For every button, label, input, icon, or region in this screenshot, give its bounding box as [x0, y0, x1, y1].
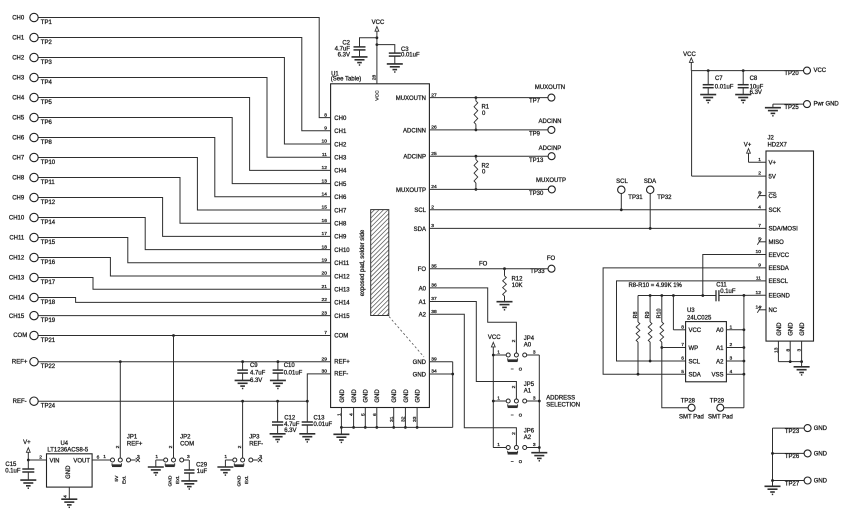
svg-text:TP18: TP18	[41, 300, 56, 306]
svg-text:7: 7	[758, 223, 761, 229]
svg-text:TP4: TP4	[41, 80, 53, 86]
svg-text:CH2: CH2	[12, 56, 25, 62]
svg-text:CH0: CH0	[12, 16, 25, 22]
svg-text:GND: GND	[66, 465, 72, 479]
svg-text:3: 3	[533, 395, 536, 401]
svg-text:JP3: JP3	[249, 434, 260, 440]
svg-text:CH1: CH1	[12, 36, 25, 42]
svg-text:TP12: TP12	[41, 200, 56, 206]
svg-text:CH10: CH10	[9, 216, 25, 222]
svg-text:VOUT: VOUT	[73, 458, 90, 464]
svg-text:SDA: SDA	[414, 227, 426, 233]
svg-text:CH7: CH7	[334, 208, 347, 214]
svg-text:REF-: REF-	[249, 442, 263, 448]
svg-text:CH7: CH7	[12, 156, 25, 162]
svg-text:TP7: TP7	[529, 99, 541, 105]
svg-text:Pwr GND: Pwr GND	[813, 102, 839, 108]
svg-text:1: 1	[155, 454, 158, 460]
svg-text:R2: R2	[481, 163, 489, 169]
svg-text:Ext.: Ext.	[122, 476, 128, 484]
svg-text:1: 1	[497, 349, 500, 355]
svg-text:TP11: TP11	[41, 180, 56, 186]
svg-text:TP21: TP21	[41, 338, 56, 344]
svg-text:J2: J2	[767, 135, 774, 141]
svg-text:REF+: REF+	[127, 442, 143, 448]
svg-text:2: 2	[758, 171, 761, 177]
svg-text:12: 12	[322, 165, 328, 171]
svg-text:4.7uF: 4.7uF	[284, 422, 300, 428]
svg-text:4: 4	[729, 369, 732, 375]
svg-text:24LC025: 24LC025	[687, 315, 712, 321]
svg-text:TP20: TP20	[784, 71, 799, 77]
svg-text:U4: U4	[60, 441, 68, 447]
svg-text:C15: C15	[5, 462, 17, 468]
svg-text:TP30: TP30	[529, 191, 544, 197]
svg-text:28: 28	[371, 74, 377, 80]
svg-text:CH13: CH13	[334, 287, 350, 293]
svg-text:GND: GND	[814, 451, 828, 457]
svg-text:3: 3	[729, 356, 732, 362]
svg-text:21: 21	[322, 284, 328, 290]
svg-text:2: 2	[511, 385, 517, 388]
svg-text:CH8: CH8	[12, 176, 25, 182]
svg-text:0.1uF: 0.1uF	[5, 469, 21, 475]
svg-text:exposed pad, solder side: exposed pad, solder side	[360, 229, 366, 296]
svg-text:1: 1	[497, 395, 500, 401]
svg-text:CH11: CH11	[334, 261, 350, 267]
svg-text:TP5: TP5	[41, 100, 53, 106]
svg-text:A1: A1	[716, 346, 724, 352]
svg-text:CH2: CH2	[334, 142, 347, 148]
svg-text:3: 3	[533, 442, 536, 448]
svg-text:GND: GND	[800, 322, 806, 336]
svg-text:GND: GND	[413, 360, 427, 366]
svg-text:A2: A2	[524, 435, 532, 441]
svg-text:Ext.: Ext.	[244, 476, 250, 484]
svg-text:MUXOUTP: MUXOUTP	[536, 178, 566, 184]
svg-text:CH1: CH1	[334, 129, 347, 135]
svg-text:ADCINP: ADCINP	[539, 146, 562, 152]
svg-text:EESCL: EESCL	[768, 279, 788, 285]
svg-text:HD2X7: HD2X7	[767, 143, 787, 149]
svg-text:13: 13	[773, 347, 779, 353]
svg-text:A0: A0	[419, 286, 427, 292]
svg-text:ADCINP: ADCINP	[403, 155, 426, 161]
svg-text:GND: GND	[404, 389, 410, 403]
svg-text:GND: GND	[352, 389, 358, 403]
svg-text:R1: R1	[481, 105, 489, 111]
svg-text:CH13: CH13	[9, 276, 25, 282]
svg-text:CH5: CH5	[334, 182, 347, 188]
svg-text:VCC: VCC	[813, 68, 826, 74]
svg-text:SCL: SCL	[414, 208, 426, 214]
svg-text:TP13: TP13	[529, 158, 544, 164]
svg-text:JP5: JP5	[524, 382, 535, 388]
svg-text:FO: FO	[479, 262, 488, 268]
svg-text:A0: A0	[524, 342, 532, 348]
svg-text:ADCINN: ADCINN	[539, 119, 562, 125]
svg-text:CH12: CH12	[334, 274, 350, 280]
svg-text:FO: FO	[418, 267, 427, 273]
svg-text:32: 32	[400, 416, 406, 422]
svg-text:0.1uF: 0.1uF	[720, 289, 736, 295]
svg-text:31: 31	[389, 416, 395, 422]
svg-text:CH9: CH9	[12, 196, 25, 202]
svg-text:REF-: REF-	[13, 399, 27, 405]
svg-text:TP15: TP15	[41, 240, 56, 246]
svg-text:CS: CS	[768, 194, 776, 200]
svg-text:CH6: CH6	[334, 195, 347, 201]
svg-text:6.3V: 6.3V	[250, 378, 262, 384]
svg-text:16: 16	[322, 218, 328, 224]
svg-text:8: 8	[681, 324, 684, 330]
svg-text:GND: GND	[236, 475, 242, 486]
svg-text:TP29: TP29	[710, 398, 725, 404]
svg-text:R10: R10	[657, 309, 663, 319]
svg-text:Ext.: Ext.	[175, 476, 181, 484]
svg-text:23: 23	[322, 310, 328, 316]
svg-text:GND: GND	[777, 322, 783, 336]
svg-text:ADDRESS: ADDRESS	[546, 395, 575, 401]
svg-text:5V: 5V	[768, 174, 775, 180]
svg-text:TP14: TP14	[41, 220, 56, 226]
svg-text:JP4: JP4	[524, 336, 535, 342]
svg-text:CH5: CH5	[12, 116, 25, 122]
svg-text:GND: GND	[167, 475, 173, 486]
svg-text:GND: GND	[340, 389, 346, 403]
svg-text:R9: R9	[645, 312, 651, 319]
svg-text:GND: GND	[814, 479, 828, 485]
svg-text:MISO: MISO	[768, 240, 784, 246]
svg-text:3: 3	[187, 454, 190, 460]
svg-text:6: 6	[681, 356, 684, 362]
svg-text:7: 7	[681, 342, 684, 348]
svg-text:8: 8	[324, 112, 327, 118]
svg-text:19: 19	[322, 257, 328, 263]
svg-text:VCC: VCC	[488, 335, 501, 341]
svg-text:GND: GND	[413, 372, 427, 378]
svg-text:4.7uF: 4.7uF	[250, 370, 266, 376]
svg-text:1: 1	[103, 454, 106, 460]
svg-text:EEGND: EEGND	[768, 293, 790, 299]
svg-text:7: 7	[324, 330, 327, 336]
svg-text:VCC: VCC	[372, 20, 385, 26]
svg-text:EESDA: EESDA	[768, 266, 788, 272]
svg-text:TP32: TP32	[657, 195, 672, 201]
svg-text:TP17: TP17	[41, 280, 56, 286]
svg-text:1: 1	[224, 454, 227, 460]
svg-text:GND: GND	[392, 389, 398, 403]
svg-text:TP31: TP31	[628, 195, 643, 201]
svg-text:A0: A0	[716, 328, 724, 334]
svg-text:REF+: REF+	[12, 359, 28, 365]
svg-text:JP1: JP1	[127, 434, 138, 440]
svg-text:TP2: TP2	[41, 40, 53, 46]
svg-text:V+: V+	[744, 142, 752, 148]
svg-text:SDA/MOSI: SDA/MOSI	[768, 227, 798, 233]
svg-text:JP6: JP6	[524, 429, 535, 435]
svg-text:CH4: CH4	[334, 169, 347, 175]
svg-text:SCL: SCL	[688, 359, 700, 365]
svg-text:C8: C8	[750, 76, 758, 82]
svg-text:2: 2	[511, 339, 517, 342]
svg-text:JP2: JP2	[180, 434, 191, 440]
svg-text:4: 4	[349, 413, 355, 416]
svg-text:2: 2	[511, 432, 517, 435]
svg-text:CH6: CH6	[12, 136, 25, 142]
svg-text:1: 1	[729, 324, 732, 330]
svg-text:COM: COM	[13, 333, 27, 339]
svg-text:29: 29	[322, 356, 328, 362]
svg-text:6.3V: 6.3V	[284, 428, 296, 434]
svg-text:CH0: CH0	[334, 116, 347, 122]
svg-text:30: 30	[322, 369, 328, 375]
svg-text:11: 11	[322, 152, 327, 158]
svg-text:1uF: 1uF	[197, 469, 208, 475]
svg-text:SMT Pad: SMT Pad	[679, 414, 704, 420]
svg-text:5V: 5V	[114, 475, 120, 482]
svg-text:NC: NC	[768, 308, 777, 314]
svg-text:COM: COM	[334, 333, 348, 339]
svg-text:TP24: TP24	[41, 403, 56, 409]
svg-text:CH14: CH14	[334, 301, 350, 307]
svg-text:SELECTION: SELECTION	[546, 403, 580, 409]
svg-text:C7: C7	[715, 76, 723, 82]
svg-text:C11: C11	[716, 283, 727, 289]
svg-text:ADCINN: ADCINN	[403, 128, 426, 134]
svg-text:WP: WP	[688, 346, 698, 352]
svg-text:CH9: CH9	[334, 235, 347, 241]
svg-text:V+: V+	[768, 161, 776, 167]
svg-text:2: 2	[39, 454, 42, 460]
svg-text:1: 1	[336, 413, 342, 416]
svg-text:TP23: TP23	[785, 429, 800, 435]
svg-text:2: 2	[729, 342, 732, 348]
svg-text:TP8: TP8	[41, 140, 53, 146]
svg-text:TP16: TP16	[41, 260, 56, 266]
svg-text:6: 6	[372, 413, 378, 416]
svg-text:TP33: TP33	[530, 269, 545, 275]
svg-text:14: 14	[322, 191, 328, 197]
svg-text:1: 1	[758, 157, 761, 163]
svg-text:CH12: CH12	[9, 256, 25, 262]
svg-text:5: 5	[681, 369, 684, 375]
svg-text:C9: C9	[250, 363, 258, 369]
svg-text:U3: U3	[687, 308, 695, 314]
svg-text:4: 4	[62, 495, 68, 498]
svg-text:10: 10	[322, 139, 328, 145]
svg-text:SDA: SDA	[644, 179, 656, 185]
svg-text:3: 3	[137, 454, 140, 460]
svg-text:CH14: CH14	[9, 296, 25, 302]
svg-text:MUXOUTN: MUXOUTN	[535, 85, 565, 91]
svg-text:R8: R8	[633, 312, 639, 319]
svg-text:TP6: TP6	[41, 120, 53, 126]
svg-text:C13: C13	[313, 415, 325, 421]
svg-text:FO: FO	[547, 256, 556, 262]
svg-text:20: 20	[322, 271, 328, 277]
svg-text:4: 4	[758, 204, 761, 210]
svg-text:CH8: CH8	[334, 221, 347, 227]
svg-text:CH11: CH11	[9, 236, 25, 242]
svg-text:C29: C29	[196, 462, 208, 468]
svg-text:CH10: CH10	[334, 248, 350, 254]
svg-text:VCC: VCC	[375, 90, 381, 101]
svg-text:8: 8	[785, 348, 791, 351]
svg-text:3: 3	[259, 454, 262, 460]
svg-text:TP3: TP3	[41, 60, 53, 66]
svg-text:(See Table): (See Table)	[331, 77, 362, 83]
svg-text:VCC: VCC	[683, 52, 696, 58]
svg-text:33: 33	[412, 416, 418, 422]
svg-text:REF-: REF-	[334, 372, 348, 378]
svg-text:18: 18	[322, 244, 328, 250]
svg-text:TP10: TP10	[41, 160, 56, 166]
svg-text:3: 3	[797, 348, 803, 351]
svg-text:TP28: TP28	[681, 398, 696, 404]
svg-text:CH15: CH15	[334, 314, 350, 320]
svg-text:VIN: VIN	[49, 458, 59, 464]
svg-text:VCC: VCC	[688, 328, 701, 334]
svg-text:GND: GND	[364, 389, 370, 403]
svg-text:TP9: TP9	[529, 131, 541, 137]
svg-text:TP19: TP19	[41, 318, 56, 324]
svg-text:13: 13	[322, 178, 328, 184]
svg-text:TP22: TP22	[41, 364, 56, 370]
svg-text:MUXOUTN: MUXOUTN	[396, 96, 426, 102]
svg-text:5: 5	[360, 413, 366, 416]
svg-text:COM: COM	[180, 442, 194, 448]
svg-text:CH3: CH3	[12, 76, 25, 82]
svg-text:1: 1	[497, 442, 500, 448]
svg-text:GND: GND	[375, 389, 381, 403]
svg-text:CH3: CH3	[334, 155, 347, 161]
svg-text:A1: A1	[524, 388, 532, 394]
svg-text:R8-R10 = 4.99K 1%: R8-R10 = 4.99K 1%	[628, 283, 682, 289]
svg-text:10K: 10K	[512, 283, 523, 289]
svg-text:A1: A1	[419, 300, 427, 306]
svg-text:A2: A2	[419, 313, 427, 319]
svg-text:SCK: SCK	[768, 208, 780, 214]
svg-text:15: 15	[322, 205, 328, 211]
svg-text:R12: R12	[511, 276, 523, 282]
svg-text:C12: C12	[284, 415, 296, 421]
svg-text:0.01uF: 0.01uF	[284, 370, 303, 376]
svg-text:TP1: TP1	[41, 20, 53, 26]
svg-text:MUXOUTP: MUXOUTP	[396, 188, 426, 194]
svg-text:REF+: REF+	[334, 359, 350, 365]
svg-text:C10: C10	[284, 363, 296, 369]
svg-text:LT1236ACS8-5: LT1236ACS8-5	[47, 448, 88, 454]
svg-text:17: 17	[322, 231, 328, 237]
svg-text:TP25: TP25	[784, 105, 799, 111]
svg-text:TP26: TP26	[785, 454, 800, 460]
svg-text:GND: GND	[814, 426, 828, 432]
svg-text:SCL: SCL	[616, 179, 628, 185]
svg-text:TP27: TP27	[785, 481, 800, 487]
svg-text:22: 22	[322, 297, 328, 303]
svg-text:GND: GND	[789, 322, 795, 336]
svg-text:VSS: VSS	[712, 372, 724, 378]
svg-text:6.3V: 6.3V	[750, 90, 762, 96]
svg-text:6: 6	[97, 454, 100, 460]
svg-text:A2: A2	[716, 359, 724, 365]
svg-text:CH4: CH4	[12, 96, 25, 102]
svg-text:0.01uF: 0.01uF	[715, 84, 734, 90]
svg-text:0.01uF: 0.01uF	[313, 422, 332, 428]
svg-text:EEVCC: EEVCC	[768, 253, 789, 259]
svg-text:SDA: SDA	[688, 372, 700, 378]
svg-text:GND: GND	[415, 389, 421, 403]
svg-text:V+: V+	[23, 440, 31, 446]
svg-text:3: 3	[533, 349, 536, 355]
svg-text:SMT Pad: SMT Pad	[708, 414, 733, 420]
svg-text:9: 9	[324, 125, 327, 131]
svg-text:0.01uF: 0.01uF	[401, 53, 420, 59]
svg-text:6.3V: 6.3V	[338, 52, 350, 58]
svg-text:CH15: CH15	[9, 314, 25, 320]
